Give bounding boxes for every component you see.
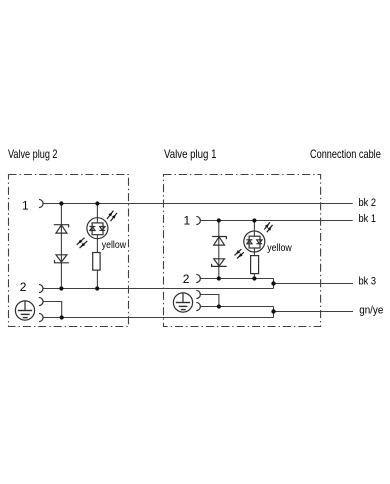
svg-text:gn/ye: gn/ye bbox=[359, 304, 383, 316]
svg-text:bk 2: bk 2 bbox=[359, 197, 377, 209]
svg-text:2: 2 bbox=[20, 280, 27, 294]
svg-text:Valve plug 1: Valve plug 1 bbox=[164, 147, 217, 161]
svg-text:Valve plug 2: Valve plug 2 bbox=[8, 147, 58, 161]
svg-text:Connection cable: Connection cable bbox=[310, 147, 381, 161]
svg-text:2: 2 bbox=[183, 272, 190, 286]
svg-text:bk 3: bk 3 bbox=[359, 276, 377, 288]
svg-text:yellow: yellow bbox=[102, 239, 127, 251]
svg-text:1: 1 bbox=[184, 214, 191, 228]
svg-text:yellow: yellow bbox=[267, 242, 292, 254]
svg-text:1: 1 bbox=[22, 198, 29, 212]
svg-text:bk 1: bk 1 bbox=[359, 213, 377, 225]
